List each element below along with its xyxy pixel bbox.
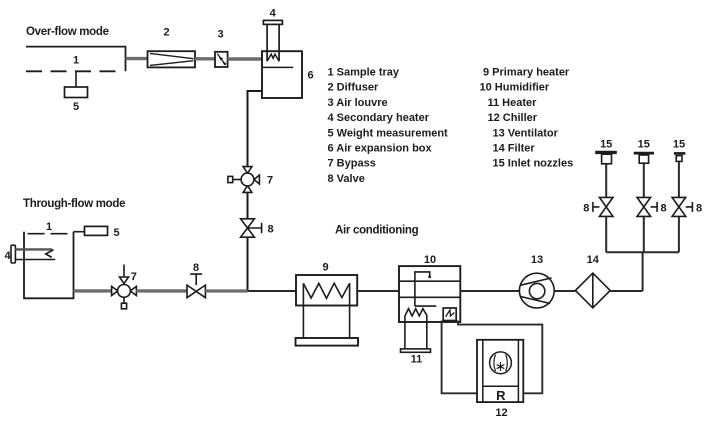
label 3: [217, 29, 223, 41]
svg-text:8: 8: [267, 224, 273, 236]
pipe valve 7 to valve 8: [136, 289, 187, 292]
ventilator 13: [519, 273, 554, 308]
label 8 (through-flow): [193, 262, 199, 274]
inlet nozzle 15 (C): [674, 153, 686, 161]
label 7 (over-flow): [267, 175, 273, 187]
svg-text:8: 8: [660, 203, 666, 215]
branch wire C: [678, 216, 680, 252]
svg-text:3 Air louvre: 3 Air louvre: [328, 97, 388, 109]
svg-text:9 Primary heater: 9 Primary heater: [483, 67, 570, 79]
label 9: [322, 262, 328, 274]
svg-text:3: 3: [217, 29, 223, 41]
weight sensor 5 (over-flow): [65, 87, 88, 98]
wire tray-to-sensor stub: [75, 71, 77, 87]
svg-text:4: 4: [5, 250, 12, 262]
label 12: [495, 407, 507, 419]
wire elbow from box 6 bottom-left: [248, 91, 263, 167]
svg-text:8 Valve: 8 Valve: [328, 173, 365, 185]
valve 8 (over-flow branch): [241, 219, 262, 237]
svg-text:8: 8: [193, 262, 199, 274]
svg-text:5: 5: [113, 227, 119, 239]
primary heater 9: [296, 275, 359, 346]
wire trap down-left to chiller loop: [442, 321, 477, 394]
riser pipe up to manifold: [642, 252, 644, 291]
svg-text:15: 15: [638, 139, 650, 151]
label 8 (over-flow): [267, 224, 273, 236]
sample tray 1 (over-flow): [26, 47, 126, 72]
label 14: [587, 254, 600, 266]
svg-text:15 Inlet nozzles: 15 Inlet nozzles: [493, 158, 574, 170]
label 1 (over-flow tray): [73, 55, 79, 67]
wire trap right to chiller loop: [458, 321, 542, 394]
wire tray to sensor 5: [74, 231, 85, 233]
manifold pipe: [606, 251, 679, 253]
valve 8 (through-flow main pipe): [187, 274, 205, 298]
valve 8 (branch B): [637, 197, 657, 216]
pipe filter to riser: [610, 290, 642, 292]
label 7 (through-flow): [131, 271, 137, 283]
wire valve 8 down to main pipe: [247, 237, 249, 291]
secondary heater 4 (through-flow): [11, 245, 55, 263]
label 13: [531, 254, 543, 266]
svg-text:13: 13: [531, 254, 543, 266]
svg-text:4 Secondary heater: 4 Secondary heater: [328, 112, 430, 124]
humidifier 10: [399, 266, 460, 322]
svg-text:6 Air expansion box: 6 Air expansion box: [328, 143, 433, 155]
wire bypass to valve 8: [247, 192, 249, 218]
label 6: [307, 70, 313, 82]
diffuser 2: [148, 51, 196, 67]
svg-text:14: 14: [587, 254, 600, 266]
label 11: [411, 354, 423, 366]
bypass valve 7 (through-flow): [112, 265, 137, 309]
inlet nozzle 15 (A): [595, 152, 617, 163]
svg-text:Through-flow mode: Through-flow mode: [23, 198, 125, 210]
title Air conditioning: [335, 225, 419, 237]
label 8 (branch A): [583, 203, 589, 215]
pipe tray to valve 7: [74, 289, 112, 292]
svg-text:9: 9: [322, 262, 328, 274]
label R (chiller refrigerant): [496, 388, 506, 403]
steam trap box (humidifier outlet): [443, 308, 456, 321]
svg-text:15: 15: [673, 139, 685, 151]
title Through-flow mode: [23, 198, 125, 210]
label 5 (over-flow): [73, 101, 79, 113]
svg-text:8: 8: [583, 203, 589, 215]
valve 8 (branch A): [593, 197, 613, 216]
svg-text:7: 7: [131, 271, 137, 283]
bypass valve 7 (over-flow branch): [228, 167, 260, 193]
filter 14: [575, 273, 610, 308]
weight sensor 5 (through-flow): [85, 226, 108, 235]
svg-text:13 Ventilator: 13 Ventilator: [493, 127, 559, 139]
pipe heater 9 to humidifier 10: [357, 290, 399, 292]
svg-text:5: 5: [73, 101, 79, 113]
wire valve A to nozzle A: [605, 164, 607, 198]
air expansion box 6: [262, 51, 302, 98]
svg-text:10: 10: [424, 254, 436, 266]
pipe diffuser to louvre: [195, 57, 215, 60]
label 15 (B): [638, 139, 650, 151]
wire valve B to nozzle B: [643, 163, 645, 197]
label 15 (C): [673, 139, 685, 151]
svg-text:7 Bypass: 7 Bypass: [328, 158, 376, 170]
legend column 1: [328, 67, 449, 185]
sample tray 1 (through-flow): [24, 232, 74, 299]
wire valve C to nozzle C: [678, 161, 680, 197]
svg-text:12: 12: [495, 407, 507, 419]
label 8 (branch C): [696, 203, 702, 215]
branch wire A: [605, 216, 607, 252]
label 2: [163, 27, 169, 39]
chiller 12: [477, 340, 523, 402]
title Over-flow mode: [26, 26, 109, 38]
label 15 (A): [600, 139, 612, 151]
label 8 (branch B): [660, 203, 666, 215]
pipe louvre to expansion box: [228, 57, 262, 61]
pipe ventilator to filter: [554, 290, 575, 292]
svg-text:2 Diffuser: 2 Diffuser: [328, 82, 379, 94]
inlet nozzle 15 (B): [634, 153, 654, 163]
svg-text:Over-flow mode: Over-flow mode: [26, 26, 109, 38]
svg-text:14 Filter: 14 Filter: [493, 143, 536, 155]
svg-text:12 Chiller: 12 Chiller: [488, 112, 538, 124]
air louvre 3: [215, 52, 228, 67]
svg-text:4: 4: [270, 8, 277, 20]
svg-text:1: 1: [73, 55, 79, 67]
label 4 (through-flow): [5, 250, 12, 262]
pipe humidifier to ventilator: [460, 290, 519, 292]
svg-text:1: 1: [46, 221, 52, 233]
svg-text:7: 7: [267, 175, 273, 187]
pipe valve 8 to junction: [205, 289, 247, 292]
label 10: [424, 254, 436, 266]
label 1 (through-flow tray): [46, 221, 52, 233]
svg-text:5 Weight measurement: 5 Weight measurement: [328, 127, 449, 139]
pipe tray to diffuser: [126, 57, 149, 60]
svg-text:Air conditioning: Air conditioning: [335, 225, 419, 237]
svg-text:11: 11: [411, 354, 423, 366]
label 4 (over-flow): [270, 8, 277, 20]
branch wire B: [643, 216, 645, 252]
svg-text:11 Heater: 11 Heater: [488, 97, 538, 109]
heater 11: [401, 309, 431, 353]
svg-text:8: 8: [696, 203, 702, 215]
pipe junction to heater 9: [248, 290, 297, 292]
svg-text:1 Sample tray: 1 Sample tray: [328, 67, 400, 79]
svg-text:10 Humidifier: 10 Humidifier: [480, 82, 550, 94]
svg-text:6: 6: [307, 70, 313, 82]
valve 8 (branch C): [672, 197, 692, 216]
svg-text:2: 2: [163, 27, 169, 39]
legend column 2: [480, 67, 574, 170]
secondary heater 4 (over-flow): [263, 20, 282, 61]
label 5 (through-flow): [113, 227, 119, 239]
svg-text:R: R: [496, 388, 506, 403]
svg-text:15: 15: [600, 139, 612, 151]
